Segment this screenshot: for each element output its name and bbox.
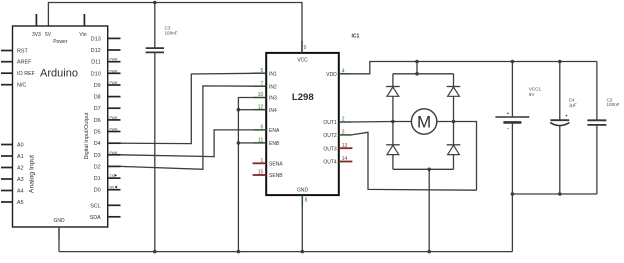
label C3 100nF (165, 26, 178, 36)
wire bottom tap to GND rail (428, 169, 430, 251)
junction battery top (511, 60, 515, 64)
junction motor left (391, 120, 395, 124)
svg-text:D0: D0 (94, 188, 101, 194)
pin D10 PWM (91, 69, 121, 77)
wire diode bottom row (393, 168, 454, 170)
pin A3 (1, 177, 24, 183)
pin 12 IN4 (254, 104, 277, 114)
svg-text:3: 3 (342, 130, 345, 136)
svg-text:IN4: IN4 (269, 108, 277, 114)
svg-text:Power: Power (53, 39, 68, 45)
svg-text:Digital Input/Output: Digital Input/Output (84, 112, 90, 160)
pin D9 PWM (94, 81, 121, 89)
svg-text:15: 15 (258, 170, 264, 176)
svg-text:1µF: 1µF (569, 102, 577, 107)
pin D3 PWM (94, 151, 121, 159)
junction diode top row (415, 72, 419, 76)
svg-text:D9: D9 (94, 83, 101, 89)
svg-text:-: - (507, 126, 509, 133)
wire ENB tap (238, 142, 254, 144)
pin 10 IN3 (254, 92, 277, 102)
pin D1 TX (94, 174, 121, 182)
wire GND rail (59, 251, 512, 253)
wire OUT2 around bridge (351, 132, 476, 190)
svg-text:5: 5 (261, 68, 264, 74)
pin 2 OUT1 (323, 117, 351, 127)
wire 5V to VCC top rail (48, 3, 302, 53)
diode D4 bottom-right (447, 122, 461, 170)
capacitor C4 (550, 62, 569, 195)
pin 8 GND (297, 188, 309, 252)
svg-text:PWM: PWM (110, 69, 118, 73)
pin D8 (94, 95, 121, 101)
junction bridge GND (427, 250, 431, 254)
pin SCL (90, 203, 120, 209)
svg-text:Analog Input: Analog Input (29, 155, 36, 193)
pin 6 ENA (254, 125, 280, 135)
Arduino U1 body (13, 26, 108, 227)
pin SDA (90, 215, 121, 221)
pin 14 OUT4 (323, 156, 352, 166)
pin 15 SENB (253, 170, 284, 180)
pin RST (1, 49, 28, 55)
pin A5 (1, 200, 24, 206)
svg-text:SENB: SENB (269, 173, 283, 179)
svg-text:OUT3: OUT3 (323, 146, 337, 152)
svg-text:D3: D3 (94, 153, 101, 159)
pin Vin (79, 14, 86, 38)
svg-text:D5: D5 (94, 130, 101, 136)
svg-text:A5: A5 (17, 200, 24, 206)
junction C3 top (153, 1, 157, 5)
svg-text:A4: A4 (17, 189, 24, 195)
svg-text:PWM: PWM (110, 81, 118, 85)
svg-text:13: 13 (342, 143, 348, 149)
capacitor C3 (146, 3, 164, 252)
svg-text:VCC: VCC (297, 58, 308, 64)
junction motor right (452, 120, 456, 124)
wire IN4 tap (238, 109, 254, 111)
svg-text:SDA: SDA (90, 215, 101, 221)
pin 5 IN1 (254, 68, 277, 78)
battery VCC1 (495, 62, 529, 195)
pin D11 PWM (91, 58, 120, 66)
svg-text:9V: 9V (529, 92, 536, 97)
svg-text:OUT2: OUT2 (323, 133, 337, 139)
svg-text:PWM: PWM (110, 128, 118, 132)
pin 7 IN2 (254, 81, 277, 91)
svg-text:RX: RX (110, 186, 115, 190)
svg-text:N/C: N/C (17, 83, 26, 89)
L298 U2 body (266, 53, 339, 195)
diode D3 bottom-left (386, 122, 400, 170)
capacitor C2 (587, 62, 606, 195)
svg-text:D2: D2 (94, 164, 101, 170)
junction bridge top tap (415, 60, 419, 64)
pin GND arduino (53, 218, 65, 252)
svg-text:+: + (506, 111, 509, 117)
junction ENB (237, 141, 241, 145)
pin A0 (1, 143, 24, 149)
junction IN4 (237, 108, 241, 112)
svg-text:GND: GND (297, 188, 309, 194)
svg-text:100nF: 100nF (607, 102, 620, 107)
svg-text:6: 6 (261, 125, 264, 131)
svg-text:14: 14 (342, 156, 348, 162)
svg-text:Arduino: Arduino (40, 68, 78, 80)
svg-text:8: 8 (305, 197, 308, 203)
svg-text:4: 4 (342, 69, 345, 75)
svg-text:A2: A2 (17, 166, 24, 172)
svg-text:IN3: IN3 (269, 96, 277, 102)
pin 9 VCC (297, 41, 308, 64)
svg-text:L298: L298 (292, 92, 315, 103)
svg-text:9: 9 (304, 45, 307, 51)
diode D1 top-left (386, 74, 400, 122)
svg-text:D13: D13 (91, 36, 101, 42)
svg-text:3V3: 3V3 (32, 32, 41, 38)
junction bottom tap (427, 168, 431, 172)
svg-text:TX: TX (110, 174, 115, 178)
svg-text:IN1: IN1 (269, 71, 277, 77)
svg-text:D8: D8 (94, 95, 101, 101)
svg-text:+: + (565, 113, 568, 119)
svg-text:7: 7 (261, 81, 264, 87)
svg-text:IN2: IN2 (269, 84, 277, 90)
wire top tap down (416, 62, 418, 74)
pin IO REF (1, 71, 36, 77)
pin 3V3 (32, 14, 41, 38)
svg-text:SENA: SENA (269, 162, 283, 168)
wire VDD to top rail (351, 62, 597, 74)
svg-text:ENB: ENB (269, 141, 280, 147)
wire IN3 to GND rail (238, 98, 254, 252)
junction C4 top (558, 60, 562, 64)
pin A2 (1, 166, 24, 172)
svg-text:A1: A1 (17, 154, 24, 160)
pin 3 OUT2 (323, 130, 351, 140)
pin D4 (94, 141, 121, 147)
pin D7 (94, 106, 121, 112)
wire D2 to IN2 (121, 86, 255, 169)
pin D0 RX (94, 186, 121, 194)
wire D3 to ENA (121, 130, 255, 157)
svg-text:VCC1: VCC1 (529, 86, 542, 91)
junction C3 bottom (153, 250, 157, 254)
svg-text:OUT4: OUT4 (323, 160, 337, 166)
svg-text:10: 10 (258, 92, 264, 98)
diode D2 top-right (447, 74, 461, 122)
svg-text:PWM: PWM (110, 116, 118, 120)
svg-text:IC1: IC1 (352, 34, 360, 40)
label C4 1uF (569, 97, 577, 107)
motor M1 (411, 109, 436, 134)
label VCC1 9V (529, 86, 542, 96)
pin 1 SENA (253, 158, 284, 168)
svg-text:D11: D11 (91, 60, 101, 66)
wire diode top row (393, 73, 454, 75)
wire motor right to bridge right column (437, 122, 477, 191)
svg-text:Vin: Vin (79, 32, 86, 38)
pin 13 OUT3 (323, 143, 352, 153)
label C2 100nF (607, 98, 620, 107)
wire OUT1 to motor (351, 121, 411, 124)
pin D2 (94, 164, 121, 170)
svg-text:PWM: PWM (110, 151, 118, 155)
pin D12 (91, 48, 121, 54)
svg-text:GND: GND (53, 218, 65, 224)
svg-text:D4: D4 (94, 141, 101, 147)
svg-text:RST: RST (17, 49, 28, 55)
svg-text:100nF: 100nF (165, 31, 178, 36)
svg-text:D10: D10 (91, 71, 101, 77)
wire battery to GND rail (511, 194, 513, 252)
svg-text:D1: D1 (94, 176, 101, 182)
pin N/C (1, 83, 26, 89)
svg-text:M: M (417, 113, 431, 132)
wire D4 to IN1 (121, 73, 255, 143)
pin 4 VDD (326, 69, 351, 79)
pin D5 PWM (94, 128, 121, 136)
pin D6 PWM (94, 116, 121, 124)
svg-text:OUT1: OUT1 (323, 120, 337, 126)
svg-text:2: 2 (342, 117, 345, 123)
pin D13 (91, 36, 121, 42)
svg-text:D7: D7 (94, 106, 101, 112)
pin 11 ENB (254, 138, 280, 148)
pin A1 (1, 154, 24, 160)
svg-text:AREF: AREF (17, 60, 32, 66)
svg-text:A0: A0 (17, 143, 24, 149)
svg-text:12: 12 (258, 104, 264, 110)
junction battery bottom (511, 192, 515, 196)
svg-text:11: 11 (258, 138, 263, 144)
svg-text:1: 1 (261, 158, 264, 164)
svg-text:5V: 5V (45, 32, 52, 38)
pin AREF (1, 60, 32, 66)
junction C4 bottom (558, 192, 562, 196)
junction L298 GND (301, 250, 305, 254)
svg-text:PWM: PWM (110, 58, 118, 62)
svg-text:IO REF: IO REF (17, 71, 36, 77)
wire bottom right bus (512, 193, 597, 195)
junction logic GND (237, 250, 241, 254)
svg-text:SCL: SCL (90, 203, 101, 209)
svg-text:D12: D12 (91, 48, 101, 54)
svg-text:ENA: ENA (269, 128, 280, 134)
svg-text:A3: A3 (17, 177, 24, 183)
svg-text:VDD: VDD (326, 72, 337, 78)
svg-text:D6: D6 (94, 118, 101, 124)
pin A4 (1, 189, 24, 195)
